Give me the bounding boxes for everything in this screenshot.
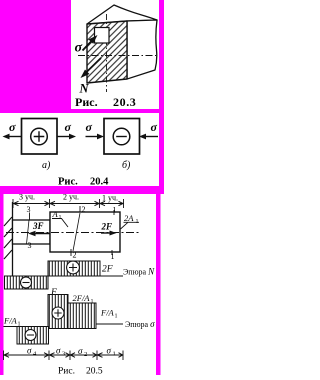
magenta left sliver — [0, 194, 4, 375]
svg-text:1: 1 — [115, 314, 118, 320]
cube front face (hatched) — [87, 21, 127, 83]
svg-text:Рис.: Рис. — [58, 367, 75, 376]
svg-text:F/A: F/A — [3, 316, 18, 326]
box b — [104, 119, 140, 155]
svg-text:σ: σ — [27, 346, 32, 356]
sigma1 label — [107, 346, 116, 358]
svg-text:2: 2 — [82, 205, 86, 214]
left arrow a — [3, 134, 22, 140]
svg-text:1: 1 — [18, 322, 21, 328]
sigma axis right segment — [96, 323, 123, 325]
section mark 3 top — [27, 205, 31, 220]
bar section 3 — [13, 220, 51, 244]
right arrow b — [139, 134, 158, 140]
sigma arrow — [83, 35, 98, 51]
svg-text:2F: 2F — [102, 265, 113, 275]
box a — [22, 119, 58, 155]
2F/A1 label — [73, 293, 94, 305]
svg-text:σ: σ — [65, 120, 72, 134]
magenta field top — [0, 0, 164, 113]
white scan area — [71, 0, 159, 109]
svg-text:1 уч.: 1 уч. — [102, 194, 118, 203]
svg-text:N: N — [79, 82, 90, 96]
plus circle N — [67, 261, 80, 274]
N axis — [13, 275, 124, 277]
N arrow — [81, 58, 102, 78]
sigma4 label — [27, 346, 37, 358]
svg-text:Эпюра σ: Эпюра σ — [125, 319, 155, 329]
svg-text:F/A: F/A — [100, 308, 115, 318]
sigma axis left segment — [4, 326, 18, 328]
left arrow b — [86, 134, 105, 140]
bar section 2 (large) — [50, 212, 120, 252]
right arrow a — [57, 134, 76, 140]
svg-text:σ: σ — [86, 120, 93, 134]
svg-text:1: 1 — [113, 206, 117, 215]
sigma2 label — [78, 346, 87, 358]
dimension line top — [13, 199, 124, 208]
section line 3-3 — [27, 220, 30, 244]
svg-text:б): б) — [122, 160, 131, 171]
svg-text:Рис.: Рис. — [75, 95, 98, 109]
svg-text:2F/A: 2F/A — [73, 293, 91, 303]
svg-text:σ: σ — [75, 41, 83, 56]
svg-text:1: 1 — [111, 252, 115, 261]
svg-text:1: 1 — [59, 215, 62, 221]
small element square — [95, 28, 110, 44]
svg-text:20.5: 20.5 — [86, 367, 103, 376]
section mark 1 bottom — [111, 250, 115, 261]
svg-text:2F: 2F — [101, 222, 113, 232]
plus circle — [31, 128, 48, 145]
N negative block F — [5, 276, 49, 289]
sigma negative block F/A1 — [17, 327, 49, 345]
svg-text:3 уч.: 3 уч. — [19, 193, 35, 202]
3F arrow — [28, 231, 50, 236]
section mark 2 bottom — [71, 249, 77, 260]
F/A1 label right — [100, 308, 118, 320]
svg-text:A: A — [52, 209, 59, 219]
svg-text:а): а) — [42, 160, 51, 171]
horizontal centerline — [78, 55, 156, 57]
vertical centerline — [106, 14, 108, 92]
svg-text:2 уч.: 2 уч. — [63, 193, 79, 202]
minus circle — [113, 128, 130, 145]
magenta sliver right of block 2 — [159, 113, 164, 186]
wall hatching — [4, 217, 12, 259]
svg-text:2: 2 — [73, 251, 77, 260]
N positive block 2F — [48, 261, 100, 276]
svg-text:σ: σ — [9, 120, 16, 134]
svg-text:20.4: 20.4 — [90, 177, 109, 188]
bottom dimension line — [4, 351, 124, 361]
section mark 2 top — [80, 205, 86, 214]
minus circle sigma — [25, 330, 36, 341]
A1 label with leader — [52, 209, 69, 227]
sigma3 label — [56, 346, 65, 358]
svg-text:σ: σ — [151, 120, 158, 134]
2A1 label with leader — [121, 213, 140, 229]
wall line — [12, 202, 14, 276]
svg-text:1: 1 — [113, 351, 116, 358]
svg-text:σ: σ — [56, 346, 61, 356]
svg-text:σ: σ — [78, 346, 83, 356]
svg-text:2: 2 — [84, 351, 87, 358]
F/A1 label left — [3, 316, 21, 328]
sigma tall positive block 2F/A1 — [48, 295, 68, 329]
section mark 1 top — [113, 206, 117, 216]
svg-text:2A: 2A — [124, 213, 134, 223]
svg-text:3F: 3F — [32, 221, 44, 231]
svg-text:Рис.: Рис. — [58, 177, 78, 188]
2F arrow — [101, 231, 117, 236]
sigma medium positive block — [68, 303, 96, 329]
minus circle N — [21, 277, 32, 288]
plus circle sigma — [52, 307, 64, 319]
svg-text:3: 3 — [28, 241, 32, 250]
svg-text:20.3: 20.3 — [113, 95, 136, 109]
svg-text:Эпюра N: Эпюра N — [123, 267, 155, 277]
cube top face — [87, 5, 157, 24]
cube right face — [127, 20, 157, 79]
section line 2-2 — [73, 213, 80, 251]
magenta right sliver — [156, 194, 161, 375]
svg-text:3: 3 — [62, 351, 65, 358]
svg-text:1: 1 — [91, 299, 94, 305]
svg-text:σ: σ — [107, 346, 112, 356]
axis centerline — [6, 232, 140, 234]
